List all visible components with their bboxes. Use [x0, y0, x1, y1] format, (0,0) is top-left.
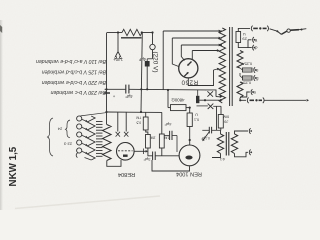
svg-text:2M: 2M [150, 136, 155, 140]
svg-text:29: 29 [242, 36, 247, 41]
svg-text:Bei 110 V a-c/ b-d-e verbinde: Bei 110 V a-c/ b-d-e verbinden [36, 58, 106, 64]
svg-text:4:1: 4:1 [220, 157, 225, 161]
svg-text:Bei 125 V b-c/b-d verbinden: Bei 125 V b-c/b-d verbinden [42, 69, 106, 75]
svg-text:REN 1004: REN 1004 [176, 171, 202, 177]
svg-text:3µF: 3µF [143, 157, 151, 162]
svg-text:140+: 140+ [113, 57, 123, 62]
svg-text:4800Ω: 4800Ω [171, 98, 185, 103]
svg-text:RE804: RE804 [118, 171, 135, 177]
svg-text:U: U [195, 113, 198, 117]
svg-text:4µF: 4µF [125, 94, 133, 99]
svg-text:P: P [255, 45, 258, 50]
svg-text:4µF: 4µF [164, 122, 172, 127]
svg-text:0W: 0W [223, 114, 229, 118]
svg-text:U: U [243, 32, 246, 37]
svg-text:24: 24 [57, 127, 62, 132]
svg-text:Bei 220 V b-c/d-e verbinden: Bei 220 V b-c/d-e verbinden [42, 79, 106, 85]
svg-text:TM: TM [136, 116, 141, 120]
svg-text:R250: R250 [181, 79, 198, 86]
svg-text:22-3: 22-3 [63, 142, 72, 147]
svg-text:1M: 1M [164, 136, 169, 140]
svg-text:0,5: 0,5 [136, 120, 141, 124]
svg-text:(220 V): (220 V) [152, 52, 159, 73]
svg-text:Bei 230 V b-c verbinden: Bei 230 V b-c verbinden [51, 89, 106, 95]
svg-text:0,1: 0,1 [194, 118, 199, 122]
svg-text:0,1µF: 0,1µF [201, 136, 210, 140]
svg-text:NKW 1,5: NKW 1,5 [8, 146, 19, 186]
svg-text:J9: J9 [224, 120, 228, 124]
svg-text:0,25A: 0,25A [242, 62, 252, 66]
